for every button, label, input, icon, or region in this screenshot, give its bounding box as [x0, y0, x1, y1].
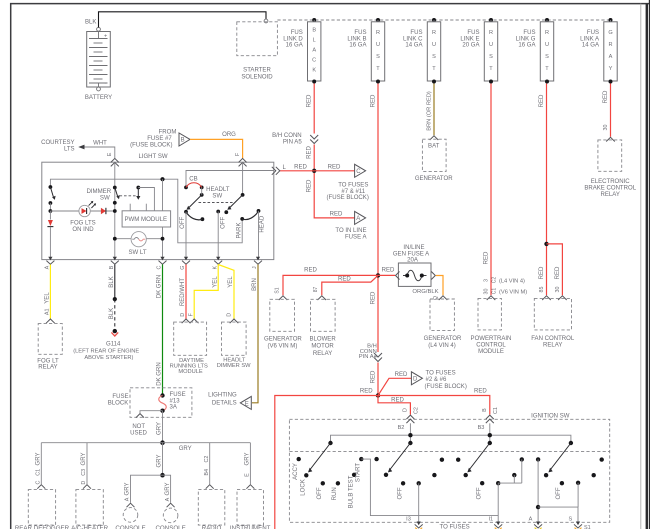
svg-text:IGNITION SW: IGNITION SW [531, 413, 570, 419]
svg-text:B4: B4 [204, 469, 210, 476]
svg-text:LINK B: LINK B [347, 36, 366, 42]
svg-text:C2: C2 [413, 407, 419, 414]
svg-text:LIGHTING: LIGHTING [208, 393, 237, 399]
instrument [230, 490, 271, 529]
svg-text:OFF: OFF [556, 487, 562, 499]
dimmer switch [86, 186, 140, 213]
wire RED branch to fan relay 30 [547, 244, 563, 295]
svg-text:30: 30 [603, 125, 609, 131]
wire RED/WHT terminal G to daytime module D [180, 265, 186, 320]
svg-text:R: R [376, 30, 380, 36]
connector break B/H CONN PIN A5 [272, 133, 318, 146]
headlt contacts [180, 209, 265, 239]
svg-text:TO FUSES: TO FUSES [426, 371, 456, 377]
svg-text:GEN FUSE A: GEN FUSE A [393, 251, 430, 257]
wire RED fuse link A to electronic brake control relay [603, 84, 611, 137]
svg-text:RED: RED [307, 179, 313, 192]
svg-text:U: U [376, 42, 380, 48]
svg-text:INSTRUMENT: INSTRUMENT [230, 525, 271, 529]
svg-text:FUS: FUS [467, 30, 479, 36]
fusible link G 16GA (RUST) [516, 18, 554, 84]
svg-text:ACCY: ACCY [293, 463, 299, 480]
wafer 1 contacts [293, 457, 364, 509]
svg-text:RELAY: RELAY [601, 192, 620, 198]
svg-text:16 GA: 16 GA [349, 43, 367, 49]
svg-text:#2 & #6: #2 & #6 [426, 377, 447, 383]
wire BLK battery to starter solenoid [85, 12, 266, 28]
terminal F on top edge [235, 152, 247, 166]
svg-text:YEL: YEL [212, 276, 218, 288]
svg-text:GRY: GRY [245, 453, 251, 466]
wire GRY to console junction [157, 443, 163, 476]
svg-text:CONTROL: CONTROL [476, 343, 506, 349]
wire ORG/BLK fuse to generator L4 [412, 276, 443, 301]
node junction L / fuse link D [312, 169, 316, 173]
wire DK GRN terminal C to fuse 13 [157, 265, 163, 396]
svg-text:S: S [432, 54, 436, 60]
svg-text:3: 3 [483, 279, 489, 282]
LED fog lts on ind [50, 201, 114, 233]
wire ORG to terminal F [190, 132, 243, 158]
svg-text:(V6 VIN M): (V6 VIN M) [267, 344, 297, 350]
svg-text:ON IND: ON IND [72, 227, 94, 233]
svg-text:TO IN LINE: TO IN LINE [335, 228, 366, 234]
svg-text:FUSE: FUSE [170, 392, 186, 398]
svg-text:GRY: GRY [165, 483, 171, 496]
svg-text:RUN: RUN [332, 487, 338, 500]
svg-text:14 GA: 14 GA [405, 43, 423, 49]
svg-text:(FUSE BLOCK): (FUSE BLOCK) [327, 195, 369, 201]
svg-text:B2: B2 [398, 425, 405, 431]
wire accy contact to A output [536, 459, 540, 521]
wires contacts to bottom edge [185, 212, 187, 260]
svg-text:BLOWER: BLOWER [309, 337, 336, 343]
svg-text:GRY: GRY [157, 422, 163, 435]
generator BAT terminal box [415, 136, 453, 182]
circuit breaker CB [184, 177, 204, 190]
rear defogger [15, 490, 70, 529]
svg-text:(FUSE BLOCK): (FUSE BLOCK) [130, 143, 172, 149]
svg-text:BLK: BLK [109, 308, 115, 319]
svg-text:D: D [403, 408, 409, 412]
svg-text:RELAY: RELAY [313, 351, 332, 357]
svg-text:PIN A5: PIN A5 [283, 140, 302, 146]
svg-text:A1: A1 [45, 309, 51, 316]
wire dimmer to pwm module [138, 188, 154, 211]
svg-text:FUS: FUS [587, 30, 599, 36]
svg-text:20 GA: 20 GA [462, 43, 480, 49]
fuse 13 3A [159, 392, 186, 413]
bottom terminals A B C G K J [46, 261, 262, 265]
svg-text:R: R [608, 42, 612, 48]
svg-text:YEL: YEL [45, 292, 51, 304]
battery [85, 27, 112, 101]
svg-text:RADIO: RADIO [202, 525, 222, 529]
svg-text:G: G [608, 30, 612, 36]
wire L bus to CB [186, 171, 274, 188]
svg-text:FUSE: FUSE [112, 394, 128, 400]
svg-text:DETAILS: DETAILS [212, 401, 237, 407]
svg-text:L: L [313, 38, 316, 44]
wire fog switch feed to park contact [50, 179, 242, 243]
svg-text:U: U [489, 42, 493, 48]
svg-text:RED: RED [294, 165, 307, 171]
svg-text:87: 87 [313, 287, 319, 293]
wire drop to rear defogger [36, 443, 46, 489]
svg-text:RED: RED [307, 94, 313, 107]
wire RED to triangle D [378, 372, 411, 395]
wire RED junction to ignition B2 [378, 396, 410, 415]
svg-text:D: D [227, 313, 233, 317]
svg-text:COURTESY: COURTESY [41, 140, 75, 146]
svg-text:(FUSE BLOCK): (FUSE BLOCK) [425, 384, 467, 390]
svg-text:U: U [545, 42, 549, 48]
svg-text:TO FUSES: TO FUSES [440, 525, 470, 529]
wire RED to junction [307, 145, 315, 171]
svg-text:FAN CONTROL: FAN CONTROL [531, 336, 575, 342]
svg-text:C: C [36, 481, 42, 485]
terminal E on top edge [107, 152, 119, 166]
svg-text:GENERATOR: GENERATOR [424, 336, 462, 342]
wire RED junction to triangle C [314, 165, 354, 171]
svg-text:U: U [432, 42, 436, 48]
svg-text:C3: C3 [81, 469, 87, 476]
svg-text:#7 & #11: #7 & #11 [341, 189, 365, 195]
headlt dimmer sw [217, 319, 251, 369]
svg-text:RED: RED [338, 277, 351, 283]
wire C column below pwm [162, 227, 164, 260]
svg-text:RED: RED [304, 268, 317, 274]
electronic brake control relay [584, 137, 636, 198]
wire RED fuse link B continues below junction [370, 278, 378, 353]
svg-text:USED: USED [130, 431, 147, 437]
svg-text:NOT: NOT [132, 424, 145, 430]
svg-text:ELECTRONIC: ELECTRONIC [591, 179, 631, 185]
svg-text:S: S [545, 54, 549, 60]
ignition switch box [289, 413, 609, 522]
svg-text:S1: S1 [274, 287, 280, 293]
svg-text:BAT: BAT [428, 143, 440, 149]
svg-text:OFF: OFF [476, 487, 482, 499]
svg-text:R: R [432, 30, 436, 36]
not used stub [130, 411, 162, 437]
svg-text:C2: C2 [204, 456, 210, 463]
svg-text:RED: RED [370, 94, 376, 107]
generator (L4 VIN 4) [424, 296, 462, 349]
svg-text:GENERATOR: GENERATOR [415, 176, 453, 182]
svg-text:RED: RED [370, 291, 376, 304]
wire YEL terminal A to fog lt relay [45, 265, 51, 319]
svg-text:T: T [489, 66, 493, 72]
svg-text:CB: CB [189, 177, 197, 183]
svg-text:-: - [105, 81, 107, 87]
svg-text:A/C-HEATER: A/C-HEATER [71, 525, 109, 529]
wire RED to blower motor relay [322, 275, 378, 295]
wafer 4 arm [548, 441, 573, 473]
svg-text:POWERTRAIN: POWERTRAIN [471, 336, 512, 342]
svg-text:C: C [312, 58, 316, 64]
svg-text:14 GA: 14 GA [582, 43, 600, 49]
svg-text:RED: RED [555, 266, 561, 279]
wire RED fuse link E to powertrain control module [483, 84, 527, 296]
svg-text:T: T [432, 66, 436, 72]
in-line gen fuse A 20A [393, 245, 435, 286]
wire YEL terminal K to headlt dimmer D [218, 265, 234, 320]
svg-text:BRN: BRN [252, 278, 258, 291]
node tap to PWM column [160, 177, 164, 181]
svg-text:MODULE: MODULE [478, 349, 504, 355]
svg-text:16 GA: 16 GA [286, 43, 304, 49]
fusible link E 20GA (RUST) [460, 18, 497, 84]
svg-text:S: S [376, 54, 380, 60]
svg-text:T: T [545, 66, 549, 72]
svg-text:RED: RED [474, 389, 487, 395]
svg-text:SW: SW [212, 193, 222, 199]
svg-text:S: S [569, 517, 573, 523]
wire RED from fuse link D down [307, 84, 315, 134]
svg-text:B: B [181, 138, 185, 144]
svg-text:RED: RED [483, 251, 489, 264]
svg-text:DIMMER SW: DIMMER SW [217, 363, 251, 369]
svg-text:BLK: BLK [109, 276, 115, 287]
powertrain control module [471, 296, 512, 355]
svg-text:(LEFT REAR OF ENGINE: (LEFT REAR OF ENGINE [73, 348, 139, 354]
wire GRY bus [41, 443, 250, 453]
svg-text:+: + [104, 34, 107, 40]
dashed bus from solenoid to fuse links [277, 19, 611, 21]
svg-text:LIGHT SW: LIGHT SW [138, 154, 167, 160]
svg-text:GRY: GRY [157, 455, 163, 468]
wire GRY fuse to junction [157, 411, 163, 443]
svg-text:START: START [356, 463, 362, 483]
svg-text:A: A [356, 216, 360, 222]
svg-text:YEL: YEL [228, 276, 234, 288]
svg-text:GENERATOR: GENERATOR [264, 337, 302, 343]
svg-text:FOG LTS: FOG LTS [70, 220, 95, 226]
diode second (right) [101, 208, 106, 214]
connector break B/H CONN PIN A4 [359, 344, 382, 362]
pwm module [122, 179, 171, 227]
svg-text:R: R [489, 30, 493, 36]
starter solenoid [237, 19, 278, 80]
svg-text:RED: RED [360, 389, 373, 395]
svg-text:T: T [376, 66, 380, 72]
svg-text:A: A [165, 497, 171, 501]
svg-text:30: 30 [483, 289, 489, 295]
output terminals I3 I1 A S [406, 517, 591, 529]
svg-text:D: D [413, 377, 418, 383]
svg-text:RED: RED [539, 94, 545, 107]
svg-text:RED: RED [603, 90, 609, 103]
radio [198, 490, 225, 529]
svg-text:RED: RED [330, 212, 343, 218]
svg-text:GRY: GRY [36, 453, 42, 466]
svg-text:K: K [212, 266, 218, 270]
svg-text:FROM: FROM [159, 130, 177, 136]
wire branch to S output [538, 483, 578, 522]
connector triangle C to fuses 7 and 11 [327, 164, 369, 201]
svg-text:B: B [312, 28, 316, 34]
svg-text:C1: C1 [36, 469, 42, 476]
svg-text:RELAY: RELAY [543, 343, 562, 349]
svg-text:BATTERY: BATTERY [85, 95, 112, 101]
wire YEL terminal K to daytime module F [188, 265, 218, 320]
svg-text:GRY: GRY [81, 453, 87, 466]
wire RED to lower junction [370, 363, 378, 396]
svg-text:IN/LINE: IN/LINE [403, 245, 424, 251]
connector triangle E lighting details [208, 393, 251, 410]
svg-text:S: S [489, 54, 493, 60]
svg-text:LOCK: LOCK [301, 479, 307, 495]
svg-text:C2: C2 [491, 277, 497, 284]
wire RED junction down to triangle A [307, 173, 355, 218]
wire console bus [131, 475, 171, 502]
svg-text:RED: RED [382, 268, 395, 274]
svg-text:3A: 3A [170, 405, 178, 411]
svg-text:G: G [180, 266, 186, 270]
svg-text:FUS: FUS [291, 30, 303, 36]
wire BLK terminal B to ground [109, 265, 117, 334]
svg-text:D: D [81, 481, 87, 485]
svg-text:LTS: LTS [64, 146, 75, 152]
svg-text:B3: B3 [478, 425, 485, 431]
svg-text:B: B [482, 408, 488, 412]
fog lt relay [37, 319, 62, 371]
svg-text:OFF: OFF [397, 487, 403, 499]
wafer 2 arm [388, 441, 413, 473]
console 2 [155, 483, 185, 529]
svg-text:PIN A4: PIN A4 [359, 354, 378, 360]
svg-text:WHT: WHT [93, 141, 107, 147]
svg-text:S1: S1 [584, 525, 591, 529]
svg-text:TO FUSES: TO FUSES [338, 182, 368, 188]
svg-text:RED: RED [328, 165, 341, 171]
headlt switch arm 1 [186, 187, 203, 209]
svg-text:MODULE: MODULE [178, 369, 203, 375]
svg-text:SOLENOID: SOLENOID [241, 74, 273, 80]
svg-text:LINK G: LINK G [516, 36, 536, 42]
svg-text:OFF: OFF [221, 216, 227, 228]
wire feed bus [331, 433, 571, 443]
generator (V6 VIN M) [264, 287, 302, 349]
svg-text:SW: SW [100, 194, 110, 201]
fusible link C 14GA (RUST) [403, 18, 441, 84]
svg-text:PWM MODULE: PWM MODULE [124, 216, 167, 223]
light switch box [42, 154, 274, 260]
svg-text:16 GA: 16 GA [518, 43, 536, 49]
wire WHT to courtesy lts [41, 140, 115, 158]
svg-text:C1: C1 [491, 288, 497, 295]
terminal L on right edge [272, 165, 287, 175]
svg-text:ABOVE STARTER): ABOVE STARTER) [84, 355, 133, 361]
svg-text:MOTOR: MOTOR [311, 344, 334, 350]
svg-text:PARK: PARK [236, 222, 242, 238]
svg-text:I3: I3 [406, 517, 411, 523]
svg-text:BLK: BLK [85, 20, 96, 26]
wire RED fuse link G to fan control relay [539, 84, 547, 296]
wire drop to instrument [245, 443, 255, 489]
svg-text:GRY: GRY [125, 483, 131, 496]
svg-text:HEADLT: HEADLT [206, 187, 230, 193]
svg-text:FUS: FUS [410, 30, 422, 36]
svg-text:ORG/BLK: ORG/BLK [412, 289, 438, 295]
fan control relay [531, 296, 575, 349]
svg-text:C: C [356, 169, 361, 175]
svg-text:(L4 VIN 4): (L4 VIN 4) [499, 279, 525, 285]
fusible link D 16GA (BLACK) [283, 18, 321, 84]
wire BRN terminal J to lighting details [252, 265, 258, 403]
svg-text:BLOCK: BLOCK [108, 401, 129, 407]
wafer 4 contacts [536, 457, 604, 499]
svg-text:Q: Q [433, 296, 439, 300]
svg-text:RED: RED [539, 266, 545, 279]
fog lts switch [49, 185, 56, 213]
svg-text:HEAD: HEAD [259, 215, 265, 232]
blower motor relay [309, 287, 336, 357]
wafer 1 arm [308, 441, 333, 473]
diode fog (down) [47, 211, 53, 260]
wire RED from light switch L [280, 165, 314, 171]
svg-text:RED: RED [370, 370, 376, 383]
svg-text:RELAY: RELAY [38, 365, 57, 371]
node lower junction [376, 393, 380, 397]
connector triangle A to in line fuse A [330, 211, 368, 240]
svg-text:A: A [125, 497, 131, 501]
svg-text:(V6 VIN M): (V6 VIN M) [499, 290, 527, 296]
wire RED junction to ignition B3 [378, 389, 490, 415]
svg-text:LINK D: LINK D [283, 36, 303, 42]
svg-text:OFF: OFF [180, 216, 186, 228]
lamp SW LT [113, 232, 165, 256]
svg-text:D: D [180, 313, 186, 317]
headlt switch arm 2 (from F) [227, 162, 244, 210]
wire to output I3 [418, 483, 420, 521]
svg-text:A: A [312, 48, 316, 54]
ground G114 [73, 332, 139, 361]
wire drop to a/c heater [81, 443, 91, 489]
wafer 2 contacts [374, 457, 444, 500]
wire RED from fuse link B down [370, 84, 378, 276]
svg-text:E: E [107, 152, 113, 156]
node console junction [160, 473, 165, 478]
fuse block box [108, 388, 192, 418]
wire RED junction going left and down page [275, 389, 378, 529]
svg-text:C: C [157, 265, 163, 269]
mechanical link dashed [199, 202, 235, 204]
node junction fan relay branch [544, 242, 548, 246]
svg-text:85: 85 [539, 287, 545, 293]
node GRY main junction [160, 440, 165, 445]
svg-text:CONSOLE: CONSOLE [115, 525, 145, 529]
svg-text:DK GRN: DK GRN [157, 275, 163, 299]
svg-text:LINK A: LINK A [580, 36, 600, 42]
svg-text:B/H CONN: B/H CONN [272, 133, 302, 139]
svg-text:A: A [45, 265, 51, 269]
svg-text:CONSOLE: CONSOLE [155, 525, 185, 529]
daytime running lts module [170, 319, 208, 375]
svg-text:RED: RED [307, 145, 313, 158]
wafer 3 contacts [456, 457, 524, 499]
svg-text:G114: G114 [106, 341, 121, 347]
svg-text:SW LT: SW LT [128, 250, 146, 256]
svg-text:#13: #13 [170, 398, 181, 404]
svg-text:A: A [529, 517, 533, 523]
svg-text:B: B [109, 265, 115, 269]
svg-text:K: K [312, 68, 316, 74]
wire BRN (OR RED) from fuse link C to generator BAT [426, 84, 434, 136]
connector triangle B from fuse 7 [130, 130, 190, 149]
svg-text:LINK C: LINK C [403, 36, 423, 42]
